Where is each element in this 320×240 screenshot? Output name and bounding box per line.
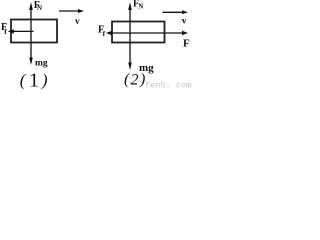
svg-text:N: N — [138, 2, 143, 10]
svg-text:mg: mg — [35, 59, 48, 69]
svg-text:fen5. com: fen5. com — [145, 80, 191, 90]
svg-text:): ) — [41, 70, 48, 89]
svg-text:v: v — [182, 17, 187, 27]
svg-text:F: F — [183, 38, 190, 50]
svg-text:2: 2 — [131, 72, 139, 89]
svg-text:v: v — [75, 17, 80, 27]
svg-text:N: N — [37, 4, 42, 12]
svg-text:1: 1 — [29, 70, 39, 91]
